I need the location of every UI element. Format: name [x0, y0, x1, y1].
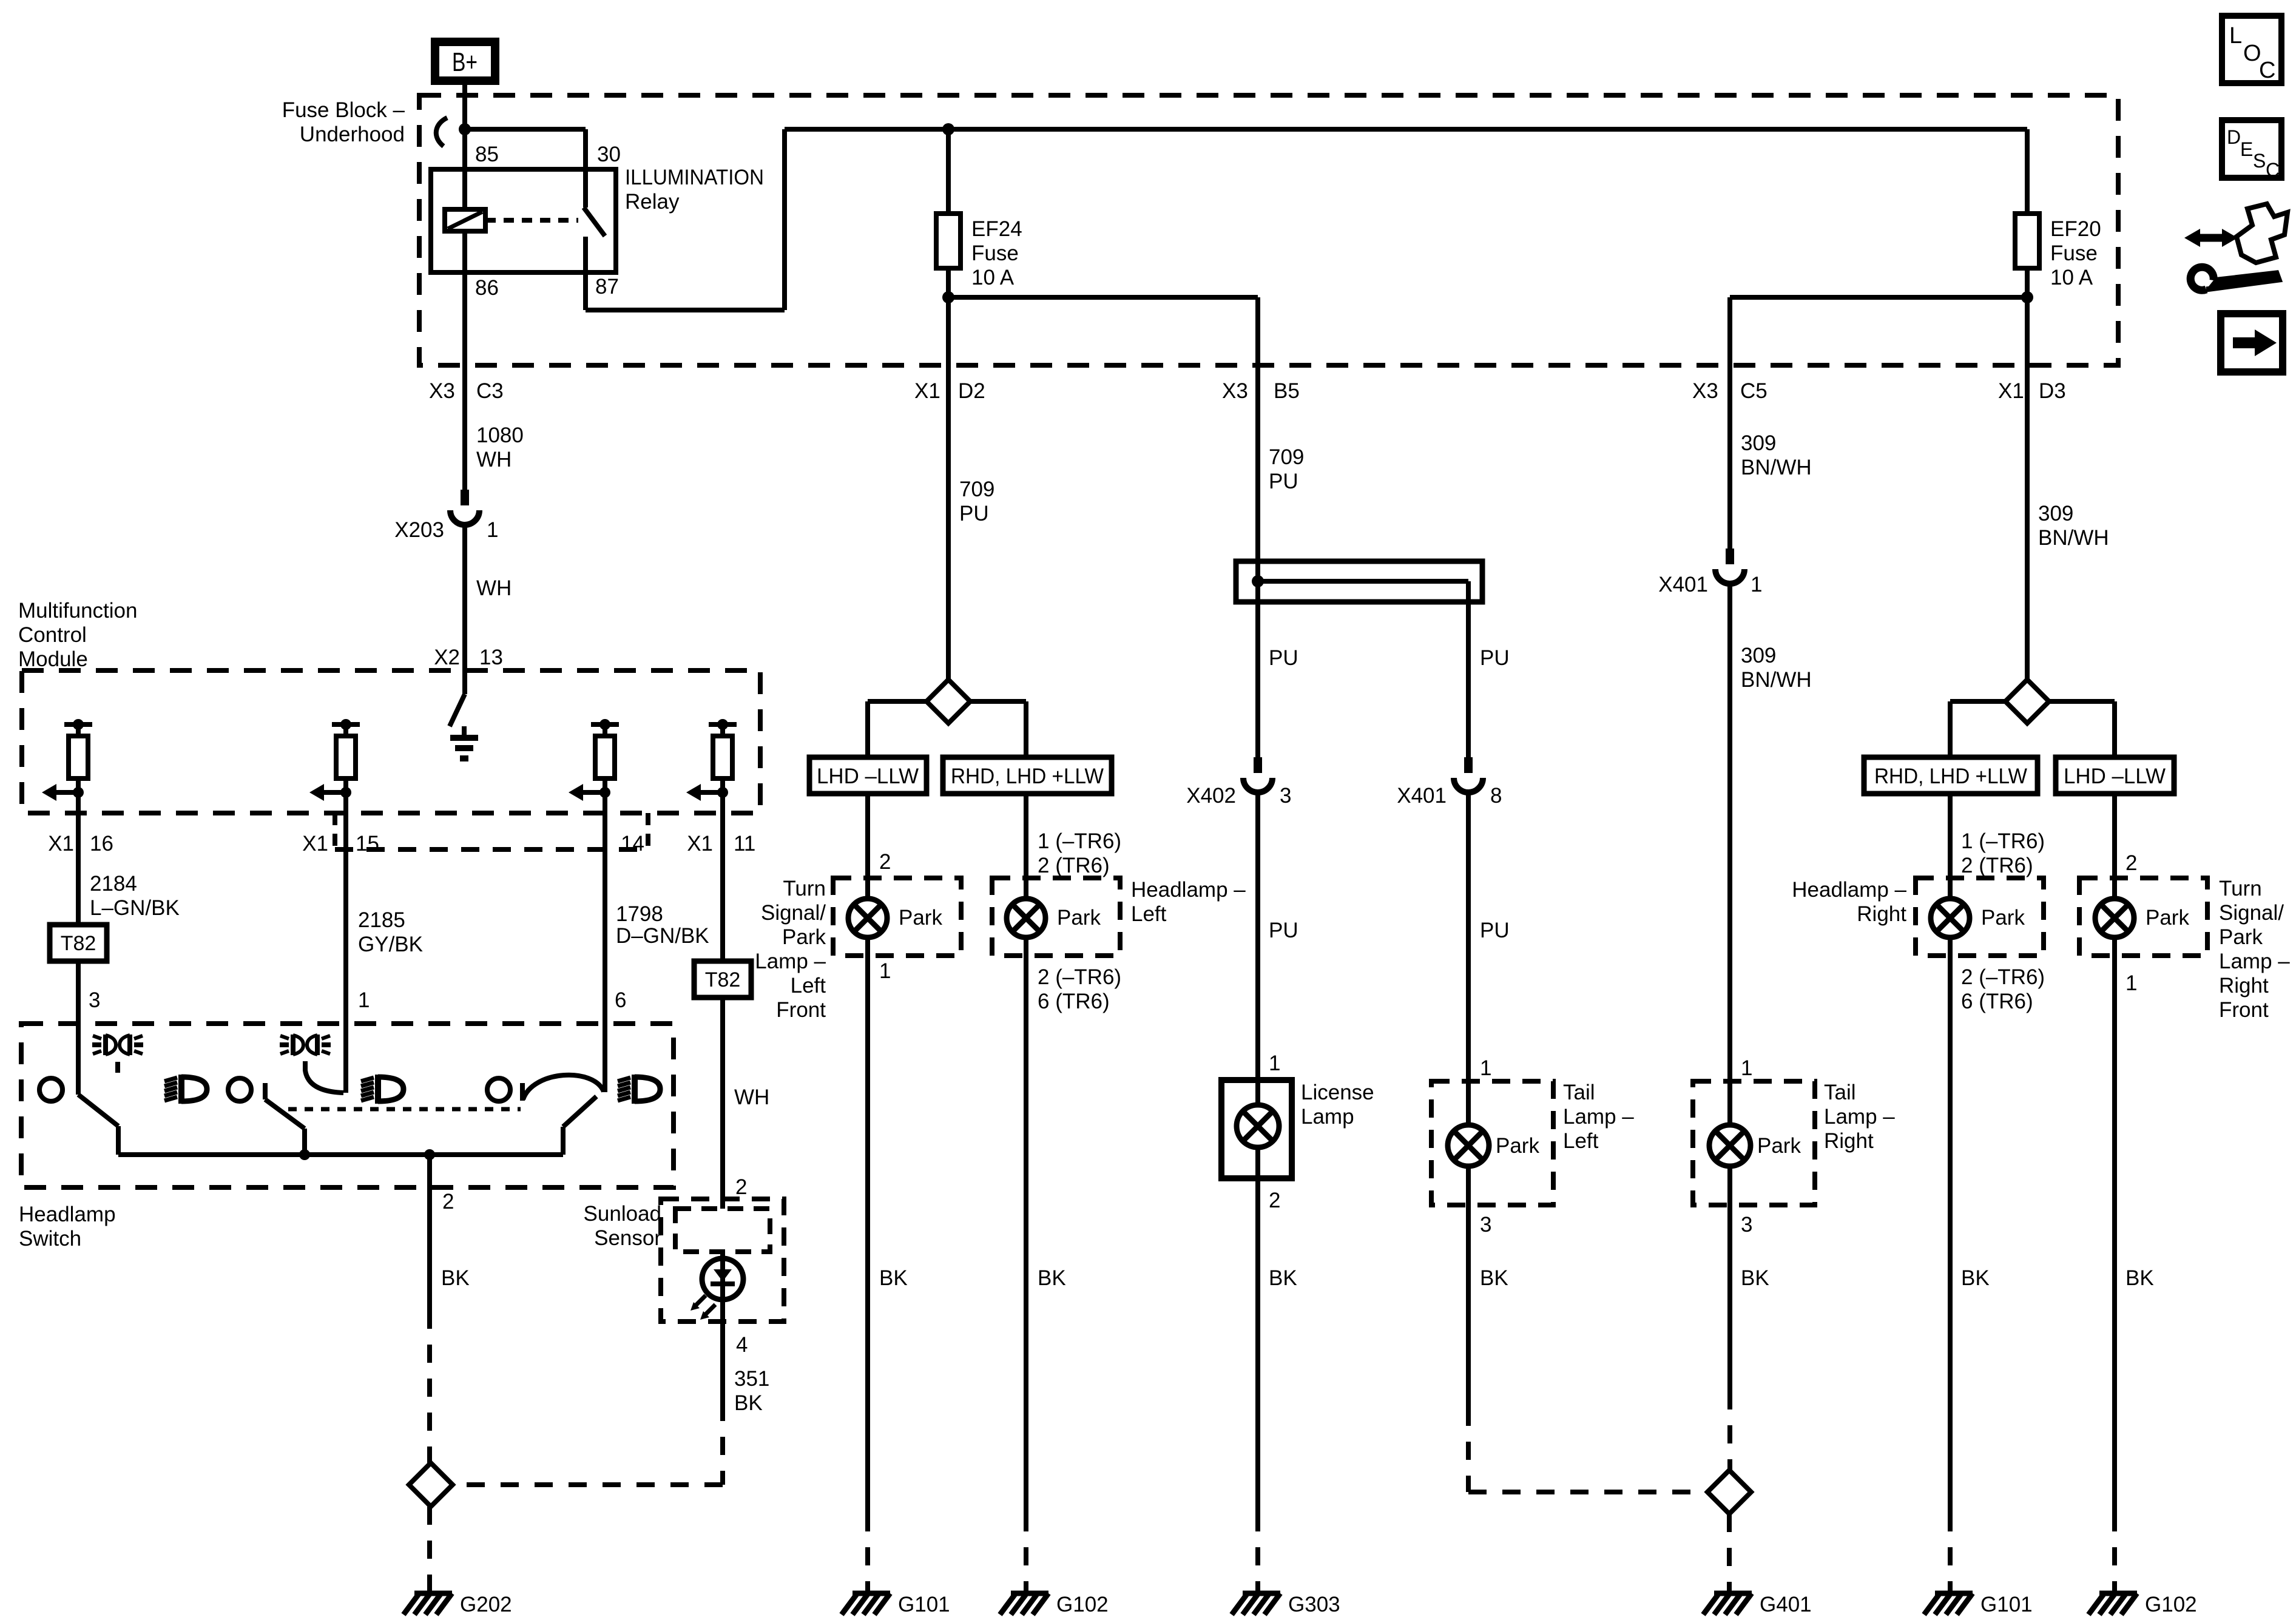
option box LHD -LLW left — [809, 757, 927, 794]
svg-text:6 (TR6): 6 (TR6) — [1038, 990, 1110, 1013]
svg-text:BK: BK — [2125, 1266, 2154, 1290]
switch ganged mechanical dotted link — [288, 1107, 521, 1112]
svg-text:X1: X1 — [687, 832, 713, 856]
lamp license — [1237, 1105, 1279, 1147]
svg-text:B5: B5 — [1274, 379, 1300, 403]
svg-text:BK: BK — [1741, 1266, 1769, 1290]
svg-text:1: 1 — [487, 518, 498, 542]
switch contact tick 3 — [520, 1083, 525, 1101]
lamp park headlamp right — [1931, 899, 1970, 937]
svg-text:Tail: Tail — [1563, 1081, 1595, 1104]
svg-text:X3: X3 — [1222, 379, 1248, 403]
svg-text:D2: D2 — [958, 379, 985, 403]
lamp park headlamp left — [1007, 899, 1045, 937]
svg-text:Headlamp: Headlamp — [19, 1203, 116, 1226]
headlamp left dashed box — [992, 878, 1120, 956]
svg-text:2: 2 — [2125, 851, 2137, 875]
svg-text:Control: Control — [18, 623, 87, 647]
svg-text:Lamp –: Lamp – — [2219, 950, 2290, 973]
fuse block underhood dashed boundary box — [419, 95, 2118, 365]
svg-text:LHD –LLW: LHD –LLW — [2064, 765, 2166, 788]
connector X401 pin 8 — [1464, 757, 1473, 773]
svg-text:X402: X402 — [1186, 784, 1236, 808]
wire 1080 WH relay pin 86 to connector X203 — [462, 231, 467, 490]
module connector notch dashed — [333, 813, 337, 849]
svg-text:Signal/: Signal/ — [761, 901, 826, 925]
ground G102 front right — [2099, 1591, 2137, 1596]
svg-text:G401: G401 — [1760, 1593, 1812, 1616]
wire sunload inner connector to photodiode — [720, 1252, 725, 1300]
wire B+ node to relay pin 30 — [465, 127, 586, 132]
connector T82 on pin 11 circuit — [694, 961, 751, 998]
svg-text:Right: Right — [2219, 974, 2269, 998]
svg-text:709: 709 — [959, 478, 994, 501]
rear harness junction block — [1236, 561, 1482, 602]
wire splice to RHD option — [970, 699, 1026, 704]
icon box arrow right — [2221, 314, 2283, 372]
icon box DESC — [2222, 120, 2281, 178]
wire top feed bus to EF20 fuse — [785, 127, 2027, 132]
svg-text:Left: Left — [1563, 1129, 1599, 1153]
icon arrows and wrench — [2196, 234, 2226, 242]
connector T82 on pin 16 circuit — [50, 925, 107, 961]
svg-text:Lamp –: Lamp – — [1824, 1105, 1895, 1129]
splice diamond right front park feed — [2005, 680, 2049, 723]
svg-text:Lamp –: Lamp – — [1563, 1105, 1634, 1129]
svg-text:Fuse: Fuse — [971, 241, 1019, 265]
svg-text:2 (TR6): 2 (TR6) — [1038, 854, 1110, 877]
svg-text:1: 1 — [1751, 573, 1762, 596]
wire tail lamp left ground lead — [1466, 1165, 1471, 1408]
svg-text:Lamp –: Lamp – — [755, 950, 826, 973]
ground G102 front left — [1011, 1591, 1048, 1596]
svg-text:8: 8 — [1490, 784, 1502, 808]
wire PU X401-8 to tail lamp left — [1466, 790, 1471, 1126]
svg-text:30: 30 — [597, 143, 621, 166]
switch blade 3 from common bus — [561, 1127, 566, 1155]
svg-text:BK: BK — [1038, 1266, 1066, 1290]
svg-text:Tail: Tail — [1824, 1081, 1856, 1104]
svg-text:Front: Front — [2219, 998, 2269, 1022]
fuse EF20 10A — [2015, 214, 2039, 268]
svg-text:BK: BK — [1480, 1266, 1508, 1290]
connector X203 pin 1 — [461, 490, 469, 505]
svg-text:2: 2 — [1269, 1189, 1280, 1212]
relay coil to contact dashed link — [485, 218, 578, 223]
svg-text:C5: C5 — [1740, 379, 1768, 403]
svg-text:GY/BK: GY/BK — [358, 933, 423, 956]
wire splice to RHD option right — [1950, 699, 2005, 704]
svg-text:2 (–TR6): 2 (–TR6) — [1038, 965, 1121, 989]
connector X402 pin 3 — [1254, 757, 1262, 773]
wire tail lamp right ground lead — [1727, 1165, 1732, 1391]
svg-text:Multifunction: Multifunction — [18, 599, 137, 623]
module internal resistor with voltage tap pin 15 — [332, 722, 360, 727]
fuse clip symbol on B+ feed — [436, 118, 447, 146]
wire lamp left front to ground — [865, 937, 870, 1513]
svg-text:RHD, LHD +LLW: RHD, LHD +LLW — [951, 765, 1104, 788]
wire WH X203 to module X2-13 — [462, 522, 467, 694]
svg-text:Module: Module — [18, 647, 88, 671]
svg-text:EF24: EF24 — [971, 217, 1022, 241]
svg-text:Headlamp –: Headlamp – — [1792, 878, 1906, 902]
svg-text:3: 3 — [89, 988, 100, 1012]
junction dot EF20 output — [2021, 291, 2033, 303]
svg-text:2: 2 — [735, 1175, 747, 1199]
wire 309 BN/WH X401-1 to tail lamp right — [1727, 581, 1732, 1126]
svg-text:E: E — [2240, 138, 2253, 160]
wire module pin 14 drop — [603, 792, 607, 1024]
wire EF24 output to X1 D2 — [946, 268, 951, 297]
wire headlamp left to ground — [1024, 937, 1028, 1513]
tail lamp left dashed box — [1431, 1081, 1553, 1205]
svg-text:G101: G101 — [1980, 1593, 2033, 1616]
ground G401 — [1714, 1591, 1752, 1596]
sunload sensor light arrows — [696, 1295, 706, 1305]
wire EF20 output to X1 D3 — [2025, 268, 2030, 297]
svg-text:2: 2 — [879, 850, 891, 874]
relay switch contact blade — [584, 208, 605, 236]
connector X401 pin 1 — [1726, 549, 1734, 564]
wire headlamp right to ground — [1948, 937, 1953, 1513]
svg-text:709: 709 — [1269, 445, 1304, 469]
svg-text:BN/WH: BN/WH — [2038, 526, 2109, 550]
switch common bus — [118, 1152, 563, 1157]
svg-text:15: 15 — [356, 832, 379, 856]
svg-text:10 A: 10 A — [2050, 266, 2093, 289]
svg-text:1 (–TR6): 1 (–TR6) — [1038, 829, 1121, 853]
svg-text:G102: G102 — [2145, 1593, 2197, 1616]
switch position contact circle off 1 — [39, 1078, 62, 1101]
headlamp right dashed box — [1916, 878, 2044, 956]
svg-text:G101: G101 — [898, 1593, 950, 1616]
option box RHD, LHD +LLW right — [1864, 757, 2038, 794]
svg-text:WH: WH — [476, 448, 512, 471]
sunload sensor photodiode — [702, 1258, 743, 1300]
switch position contact circle off 3 — [487, 1078, 510, 1101]
svg-text:Front: Front — [776, 998, 826, 1022]
relay coil — [445, 209, 485, 231]
switch position contact circle off 2 — [228, 1078, 251, 1101]
ground G101 front left — [853, 1591, 890, 1596]
svg-text:309: 309 — [1741, 431, 1776, 455]
svg-text:PU: PU — [959, 502, 989, 525]
park lamps icon position 2 — [291, 1035, 295, 1055]
wire junction block to tail lamp left branch — [1466, 581, 1471, 757]
svg-text:3: 3 — [1480, 1213, 1491, 1237]
svg-text:1: 1 — [879, 959, 891, 983]
svg-text:X1: X1 — [914, 379, 940, 403]
svg-text:Park: Park — [1496, 1134, 1539, 1158]
wire dashed splice to G401 — [1727, 1514, 1732, 1591]
svg-text:ILLUMINATION: ILLUMINATION — [625, 166, 764, 189]
svg-text:1: 1 — [1741, 1056, 1752, 1080]
svg-text:X401: X401 — [1658, 573, 1708, 596]
wire dashed tail right to splice G401 — [1727, 1391, 1732, 1471]
svg-text:S: S — [2253, 150, 2266, 172]
option box RHD, LHD +LLW left — [943, 757, 1112, 794]
svg-text:X2: X2 — [434, 646, 460, 669]
lamp park tail left — [1448, 1125, 1489, 1166]
svg-text:1 (–TR6): 1 (–TR6) — [1961, 829, 2045, 853]
svg-text:1: 1 — [1480, 1056, 1491, 1080]
svg-text:LHD –LLW: LHD –LLW — [817, 765, 919, 788]
svg-text:Fuse Block –: Fuse Block – — [282, 98, 405, 122]
svg-text:Park: Park — [1057, 906, 1101, 930]
svg-text:Sensor: Sensor — [594, 1226, 661, 1250]
wire dashed to ground G102 right — [2112, 1513, 2117, 1591]
wire switch pin 1 stub — [343, 1024, 348, 1093]
wire 709 PU X3-B5 to rear junction block — [1255, 370, 1260, 757]
svg-text:3: 3 — [1741, 1213, 1752, 1237]
wire dashed to ground G102 left — [1024, 1513, 1028, 1591]
svg-text:Park: Park — [899, 906, 942, 930]
relay box ILLUMINATION Relay — [431, 169, 616, 272]
wire dashed tail left to splice G401 — [1466, 1408, 1471, 1492]
svg-text:Fuse: Fuse — [2050, 241, 2098, 265]
svg-text:X401: X401 — [1397, 784, 1447, 808]
license lamp box — [1221, 1080, 1292, 1178]
svg-text:309: 309 — [2038, 502, 2073, 525]
svg-text:T82: T82 — [705, 968, 741, 991]
svg-text:86: 86 — [475, 276, 499, 300]
svg-text:D–GN/BK: D–GN/BK — [616, 924, 709, 948]
svg-text:14: 14 — [621, 832, 644, 856]
wire B+ feed down into fuse block to relay coil pin 85 — [462, 85, 467, 209]
wire module pin 11 drop — [720, 792, 725, 961]
svg-text:Relay: Relay — [625, 190, 680, 214]
junction dot bus pin 2 output — [424, 1149, 435, 1160]
svg-text:Right: Right — [1824, 1129, 1874, 1153]
svg-text:16: 16 — [90, 832, 113, 856]
svg-text:Turn: Turn — [2219, 877, 2262, 900]
svg-text:C: C — [2266, 159, 2280, 181]
wire EF24 fuse drop — [946, 129, 951, 214]
wire pin 16 T82 to headlamp switch pin 3 — [76, 961, 81, 1024]
park lamps icon position 1 — [103, 1035, 108, 1055]
svg-text:Left: Left — [1131, 902, 1167, 926]
svg-text:PU: PU — [1480, 919, 1510, 942]
svg-text:Right: Right — [1857, 902, 1906, 926]
svg-text:Sunload: Sunload — [584, 1202, 661, 1226]
svg-text:D: D — [2227, 126, 2241, 148]
svg-text:PU: PU — [1480, 646, 1510, 670]
svg-text:Park: Park — [782, 925, 826, 949]
svg-text:Park: Park — [2146, 906, 2189, 930]
svg-text:C3: C3 — [476, 379, 504, 403]
turn signal park lamp left front dashed box — [833, 878, 961, 956]
svg-text:X1: X1 — [48, 832, 74, 856]
turn signal park lamp right front dashed box — [2079, 878, 2207, 956]
wire dashed switch pin2 to splice — [427, 1311, 432, 1463]
option box LHD -LLW right — [2056, 757, 2174, 794]
svg-text:1: 1 — [2125, 971, 2137, 995]
svg-text:3: 3 — [1280, 784, 1291, 808]
svg-text:BK: BK — [879, 1266, 908, 1290]
svg-text:B+: B+ — [452, 47, 478, 77]
svg-text:13: 13 — [479, 646, 503, 669]
fuse EF24 10A — [936, 214, 961, 268]
svg-text:10 A: 10 A — [971, 266, 1015, 289]
switch wiper arc 3 — [523, 1075, 604, 1099]
svg-text:Turn: Turn — [783, 877, 826, 900]
svg-text:X1: X1 — [302, 832, 328, 856]
wire 709 PU X1-D2 to splice — [946, 297, 951, 680]
svg-text:BK: BK — [1269, 1266, 1297, 1290]
wire pin 11 T82 to sunload sensor — [720, 998, 725, 1209]
svg-text:License: License — [1301, 1081, 1374, 1104]
low beam icon position 3 — [618, 1078, 630, 1081]
svg-text:85: 85 — [475, 143, 499, 166]
svg-text:G102: G102 — [1056, 1593, 1109, 1616]
svg-text:G303: G303 — [1288, 1593, 1340, 1616]
splice diamond ground G401 node — [1707, 1470, 1751, 1514]
splice diamond front park feed — [927, 680, 970, 723]
wire option to turn signal park lamp right front — [2112, 794, 2117, 899]
sunload sensor outer dashed box — [661, 1199, 784, 1322]
svg-text:Switch: Switch — [19, 1227, 81, 1251]
svg-text:Park: Park — [1981, 906, 2025, 930]
node B+ battery feed terminal — [435, 42, 495, 81]
svg-text:2185: 2185 — [358, 908, 405, 932]
lamp park tail right — [1709, 1125, 1751, 1166]
svg-text:X3: X3 — [429, 379, 455, 403]
svg-text:PU: PU — [1269, 646, 1298, 670]
wire dashed to ground G101 left — [865, 1513, 870, 1591]
splice diamond ground G202 node — [409, 1463, 453, 1507]
junction dot bus blade2 — [299, 1149, 310, 1160]
module internal resistor with voltage tap pin 11 — [709, 722, 737, 727]
ground G202 — [414, 1591, 452, 1596]
svg-text:Park: Park — [1757, 1134, 1801, 1158]
svg-text:EF20: EF20 — [2050, 217, 2101, 241]
wire PU X402 to license lamp — [1255, 790, 1260, 1106]
tail lamp right dashed box — [1693, 1081, 1815, 1205]
module internal resistor with voltage tap pin 14 — [591, 722, 619, 727]
switch wiper arc 2 — [305, 1061, 343, 1093]
svg-text:11: 11 — [734, 832, 755, 856]
ground G101 front right — [1935, 1591, 1973, 1596]
wire option to headlamp right park — [1948, 794, 1953, 899]
svg-text:Park: Park — [2219, 925, 2263, 949]
svg-text:2: 2 — [442, 1190, 454, 1214]
wire 309 BN/WH X3-C5 to X401-1 — [1727, 370, 1732, 549]
svg-text:BK: BK — [441, 1266, 470, 1290]
svg-text:1080: 1080 — [476, 424, 524, 447]
svg-text:PU: PU — [1269, 470, 1298, 493]
wire dashed sunload to splice — [720, 1403, 725, 1485]
icon box LOC — [2222, 16, 2281, 83]
svg-text:351: 351 — [734, 1367, 769, 1391]
wire dashed splice to G202 — [427, 1507, 432, 1591]
svg-text:T82: T82 — [61, 932, 96, 955]
switch blade 2 — [263, 1083, 268, 1099]
junction dot EF24 tap — [942, 123, 954, 135]
svg-text:309: 309 — [1741, 644, 1776, 667]
ground G303 — [1243, 1591, 1280, 1596]
wire option box to turn signal park lamp left front — [865, 794, 870, 899]
lamp park right front — [2095, 899, 2134, 937]
wire splice to LHD option right — [2049, 699, 2115, 704]
svg-text:RHD, LHD +LLW: RHD, LHD +LLW — [1874, 765, 2027, 788]
svg-text:BN/WH: BN/WH — [1741, 456, 1812, 479]
svg-text:2 (–TR6): 2 (–TR6) — [1961, 965, 2045, 989]
svg-text:1798: 1798 — [616, 902, 663, 926]
low beam icon position 2 — [361, 1078, 374, 1081]
junction block internal bus — [1258, 579, 1468, 584]
svg-text:4: 4 — [736, 1333, 748, 1357]
wire option box to headlamp left park — [1024, 794, 1028, 899]
svg-text:D3: D3 — [2039, 379, 2066, 403]
wire module pin 16 drop — [76, 792, 81, 925]
module internal switch to ground — [450, 694, 465, 726]
svg-text:PU: PU — [1269, 919, 1298, 942]
low beam icon position 1 — [164, 1078, 177, 1081]
wire splice to LHD-LLW option — [868, 699, 927, 704]
svg-text:Underhood: Underhood — [300, 123, 405, 146]
svg-text:BK: BK — [1961, 1266, 1990, 1290]
wire dashed to ground G101 right — [1948, 1513, 1953, 1591]
wire EF24 output branch to X3 B5 — [948, 295, 1258, 300]
svg-text:G202: G202 — [460, 1593, 512, 1616]
svg-text:BK: BK — [734, 1391, 763, 1415]
wire sunload sensor pin 4 ground lead — [720, 1300, 725, 1403]
svg-text:Signal/: Signal/ — [2219, 901, 2284, 925]
svg-text:87: 87 — [595, 275, 619, 299]
svg-text:C: C — [2259, 58, 2275, 83]
wire module pin 15 drop — [343, 792, 348, 1024]
sunload sensor inner dashed box — [675, 1209, 770, 1252]
svg-text:WH: WH — [476, 576, 512, 600]
svg-text:6 (TR6): 6 (TR6) — [1961, 990, 2033, 1013]
svg-text:X3: X3 — [1692, 379, 1718, 403]
module internal resistor with voltage tap pin 16 — [64, 722, 92, 727]
junction dot rear feed — [1252, 575, 1264, 587]
wire 309 BN/WH X1-D3 to splice — [2025, 297, 2030, 680]
svg-text:BN/WH: BN/WH — [1741, 668, 1812, 692]
wire turn signal right front to ground — [2112, 937, 2117, 1513]
wire switch pin 6 stub — [603, 1024, 607, 1092]
svg-text:2 (TR6): 2 (TR6) — [1961, 854, 2033, 877]
svg-text:6: 6 — [615, 988, 626, 1012]
svg-text:L–GN/BK: L–GN/BK — [90, 896, 180, 920]
wire relay pin 87 to EF20 feed riser — [583, 237, 588, 310]
junction dot B+ node — [459, 123, 471, 135]
wire license lamp to ground — [1255, 1146, 1260, 1513]
wire EF20 output branch to X3 C5 — [1730, 295, 2027, 300]
wire EF20 fuse drop — [2025, 129, 2030, 214]
svg-text:1: 1 — [358, 988, 370, 1012]
junction dot EF24 output — [942, 291, 954, 303]
svg-text:X1: X1 — [1998, 379, 2024, 403]
svg-text:Left: Left — [791, 974, 826, 998]
headlamp switch dashed boundary box — [21, 1024, 674, 1187]
wire headlamp switch pin 2 ground lead — [427, 1155, 432, 1311]
svg-text:Headlamp –: Headlamp – — [1131, 878, 1246, 902]
svg-text:1: 1 — [1269, 1052, 1280, 1075]
svg-text:L: L — [2229, 23, 2242, 49]
switch blade pin 3 — [76, 1024, 81, 1095]
lamp park left front — [848, 899, 887, 937]
svg-text:WH: WH — [734, 1085, 769, 1109]
wire dashed to ground G303 — [1255, 1513, 1260, 1591]
svg-text:X203: X203 — [394, 518, 444, 542]
module dashed boundary box — [22, 670, 760, 813]
svg-text:Lamp: Lamp — [1301, 1105, 1354, 1129]
svg-text:2184: 2184 — [90, 872, 137, 896]
